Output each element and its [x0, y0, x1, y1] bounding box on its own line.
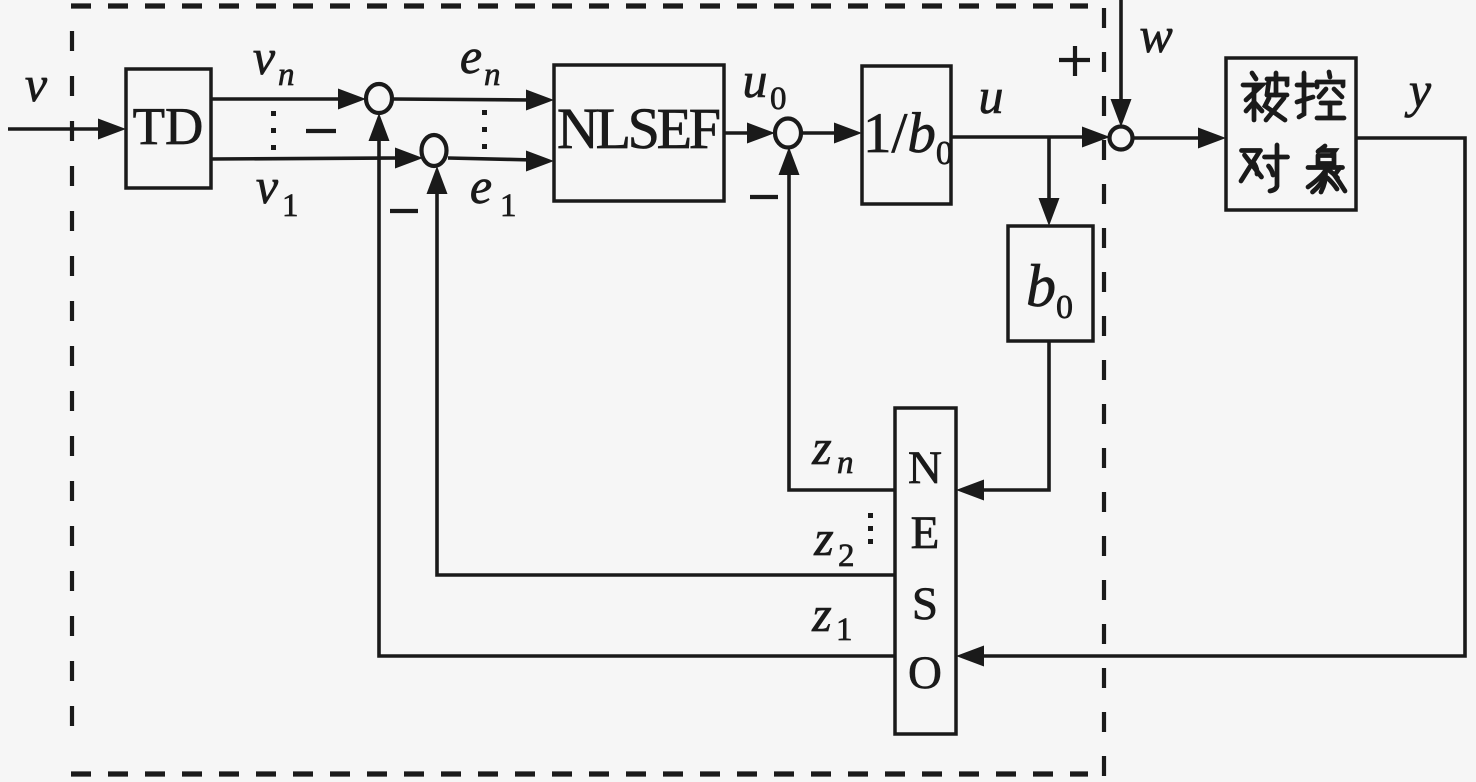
svg-text:1: 1 [836, 612, 853, 648]
svg-text:u: u [979, 68, 1004, 124]
svg-text:v: v [253, 29, 276, 85]
svg-text:z: z [811, 586, 831, 642]
svg-text:1: 1 [500, 188, 517, 224]
svg-text:z: z [811, 419, 831, 475]
svg-text:y: y [1404, 62, 1432, 118]
svg-text:e: e [470, 158, 492, 214]
svg-text:NLSEF: NLSEF [557, 96, 721, 161]
svg-text:2: 2 [838, 538, 855, 574]
svg-text:v: v [256, 158, 279, 214]
svg-text:E: E [911, 507, 940, 559]
svg-text:n: n [837, 445, 854, 481]
svg-text:n: n [484, 57, 501, 93]
svg-text:N: N [908, 442, 942, 494]
svg-text:TD: TD [133, 98, 204, 156]
svg-text:w: w [1139, 7, 1172, 63]
svg-text:0: 0 [770, 81, 787, 117]
svg-text:u: u [743, 52, 768, 108]
svg-text:S: S [912, 578, 938, 630]
svg-text:n: n [278, 57, 295, 93]
svg-text:1: 1 [282, 188, 299, 224]
svg-text:e: e [460, 28, 482, 84]
svg-text:O: O [908, 647, 942, 699]
svg-text:z: z [813, 510, 833, 566]
svg-text:v: v [25, 56, 48, 112]
